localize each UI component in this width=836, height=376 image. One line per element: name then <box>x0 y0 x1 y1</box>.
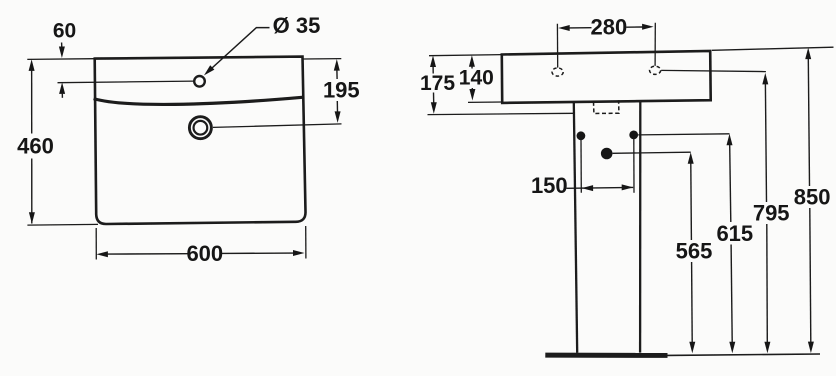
svg-text:460: 460 <box>17 134 54 159</box>
140 bottom extension line <box>468 101 503 103</box>
pedestal right edge <box>639 101 642 353</box>
svg-text:175: 175 <box>420 72 455 95</box>
extension line from left fixing hole <box>580 139 582 193</box>
floor line thick <box>545 353 667 358</box>
svg-text:795: 795 <box>753 201 790 226</box>
svg-text:565: 565 <box>676 238 713 263</box>
svg-text:600: 600 <box>186 241 223 266</box>
280 extension line left to hole <box>556 24 558 68</box>
line from waste outlet to 565 dim <box>613 152 691 153</box>
overflow/waste hole (double circle) <box>189 117 211 139</box>
850 top extension line <box>712 47 834 50</box>
dashed trap/waste outline <box>594 100 619 113</box>
leader line for hole diameter <box>207 28 270 73</box>
svg-text:150: 150 <box>531 173 568 198</box>
bottom extension line (left view) <box>27 223 98 226</box>
195 top extension line <box>303 58 341 60</box>
svg-text:140: 140 <box>459 67 494 90</box>
svg-text:Ø 35: Ø 35 <box>273 13 321 38</box>
600 extension line right <box>305 226 307 259</box>
dim 60 lower arrow <box>59 82 65 94</box>
top extension line (left view) <box>27 58 95 61</box>
waste outlet hole (large dot) <box>601 148 613 160</box>
600 extension line left <box>95 228 97 260</box>
line from right fixing hole to 615 dim <box>638 134 729 135</box>
795 extension line from faucet hole <box>661 70 766 71</box>
pedestal left edge <box>574 102 577 353</box>
dim 600 line with arrows <box>96 251 108 257</box>
dim 565 vertical with arrows <box>688 152 694 164</box>
dim 850 vertical with arrows <box>805 48 811 60</box>
dim 795 vertical with arrows <box>762 73 768 85</box>
svg-text:60: 60 <box>53 20 76 43</box>
basin rim front edge curve <box>94 97 304 104</box>
dim 175 upper part <box>430 56 436 68</box>
overflow centerline to 195 dim <box>213 124 342 128</box>
top extension line (right view) <box>429 55 502 56</box>
fixing hole right (dot) <box>629 131 638 140</box>
dim 615 vertical with arrows <box>727 134 733 146</box>
dim 460 vertical line with arrows <box>29 59 35 71</box>
dim 140 lower part <box>471 88 473 90</box>
175 bottom extension line <box>428 113 575 114</box>
basin side view outline <box>502 51 711 103</box>
svg-text:615: 615 <box>716 221 753 246</box>
dim 60 upper arrow <box>61 43 63 49</box>
svg-text:850: 850 <box>794 184 831 209</box>
basin front view outline <box>95 57 306 224</box>
dim 195 line with arrows <box>334 59 340 71</box>
floor line thin <box>668 354 821 355</box>
dim 150 line with arrows <box>567 186 634 189</box>
dim 140 upper part <box>469 55 475 66</box>
fixing hole left (dot) <box>577 131 586 140</box>
280 extension line right to hole <box>654 23 656 66</box>
dim 175 lower part <box>433 93 435 103</box>
dashed faucet hole left (top view) <box>552 68 563 76</box>
svg-text:280: 280 <box>591 15 628 40</box>
svg-text:195: 195 <box>323 78 360 103</box>
faucet hole (front view) <box>194 76 205 87</box>
extension line from right fixing hole <box>633 138 635 193</box>
faucet hole centerline <box>58 81 195 83</box>
dashed faucet hole right (top view) <box>650 66 661 74</box>
dim 280 line with arrows <box>558 25 570 31</box>
